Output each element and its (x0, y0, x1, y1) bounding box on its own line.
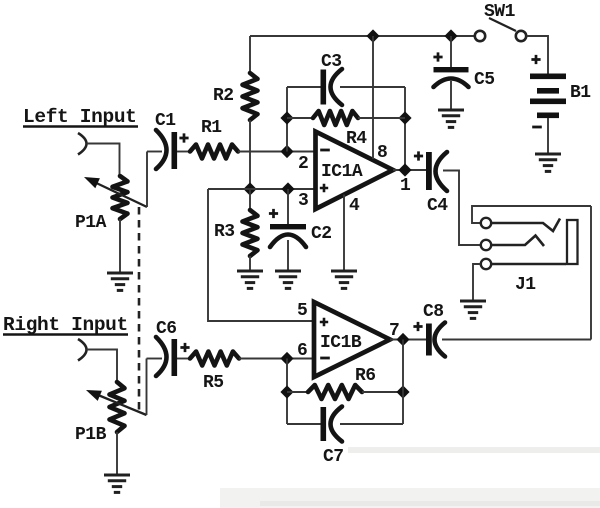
J1 plug body (567, 220, 578, 264)
ground under R3 (237, 270, 263, 273)
capacitor C6 plus (180, 343, 189, 352)
capacitor C5 plus (433, 52, 442, 61)
wire C3 frame right (340, 86, 405, 88)
capacitor C8 (426, 323, 445, 357)
svg-text:SW1: SW1 (484, 2, 516, 22)
right input jack (78, 339, 87, 361)
ground under P1A (107, 272, 133, 275)
ground under C2 (275, 270, 301, 273)
ground under pin4 (331, 270, 357, 273)
node R6 left (280, 385, 293, 398)
wire C5 to ground (450, 81, 452, 109)
switch SW1 (475, 18, 526, 41)
svg-text:C6: C6 (156, 319, 177, 339)
wire C1 to R1 (177, 151, 190, 153)
wire P1A wiper riser (146, 152, 148, 208)
svg-text:4: 4 (349, 196, 360, 216)
wire R4 right lead (358, 117, 405, 119)
wire pin7 down link (402, 340, 404, 425)
svg-text:P1B: P1B (75, 425, 107, 445)
svg-text:C1: C1 (155, 111, 176, 131)
battery B1 (530, 74, 566, 119)
svg-text:R5: R5 (203, 373, 224, 393)
wire C7 left lead (287, 423, 321, 425)
svg-text:IC1B: IC1B (320, 333, 362, 353)
wire C4 to J1 (443, 171, 481, 246)
capacitor C2 plus (269, 209, 278, 218)
wire J1 to C8 return (590, 206, 592, 340)
svg-text:J1: J1 (515, 275, 536, 295)
pin 4 wire (343, 195, 345, 272)
capacitor C8 plus (413, 322, 422, 331)
capacitor C1 plus (179, 133, 188, 142)
wire R2 to bias node (249, 120, 251, 189)
wire V+ rail (250, 35, 475, 37)
pin 8 wire (372, 36, 374, 159)
svg-text:Left Input: Left Input (23, 106, 137, 128)
node R4 left (280, 111, 293, 124)
node R4 right (398, 111, 411, 124)
wire bias to pin5 (208, 189, 314, 321)
svg-text:P1A: P1A (75, 213, 107, 233)
svg-text:C8: C8 (423, 302, 444, 322)
wire jack to P1B (87, 350, 118, 383)
wire riser to C1 (147, 151, 162, 153)
node pin2-feedback (280, 145, 293, 158)
J1 ring contact B (481, 236, 544, 251)
svg-text:C4: C4 (427, 196, 448, 216)
IC1B minus input mark (320, 357, 330, 360)
node V+ at C5 (444, 29, 457, 42)
op-amp IC1B (314, 302, 390, 377)
pin 1 wire (393, 169, 426, 171)
node bias-R2 (243, 182, 256, 195)
svg-text:R2: R2 (213, 86, 234, 106)
wire battery to ground (547, 118, 549, 153)
IC1B plus input mark (320, 318, 328, 326)
svg-text:B1: B1 (570, 83, 591, 103)
resistor R4 (313, 111, 358, 125)
scan artifact band 2 (220, 488, 600, 508)
svg-text:R1: R1 (201, 118, 222, 138)
ground under C5 (438, 109, 464, 112)
wire C7 right lead (340, 423, 403, 425)
wire P1A to ground (119, 219, 121, 272)
ground under P1B (104, 474, 130, 477)
wire rail corner to R2 (249, 36, 251, 73)
wire riser to C6 (147, 358, 163, 360)
wire R6 right lead (362, 391, 403, 393)
capacitor C2 (270, 189, 306, 271)
svg-text:Right Input: Right Input (3, 314, 128, 336)
svg-text:6: 6 (297, 341, 307, 361)
op-amp IC1A (316, 132, 394, 210)
wire C6 to R5 (177, 358, 190, 360)
capacitor C5 (434, 67, 469, 87)
wire R5 to pin6 (239, 358, 314, 360)
wire C8 to J1 return (442, 339, 591, 341)
svg-text:IC1A: IC1A (321, 162, 363, 182)
node V+ at pin8 column (366, 29, 379, 42)
capacitor C6 (156, 337, 177, 376)
node pin7 (396, 333, 409, 346)
wire jack to P1A (87, 144, 120, 177)
ground under J1 (460, 300, 486, 303)
wire C3 frame left (287, 86, 321, 88)
wire feedback left vertical (286, 87, 288, 152)
svg-text:2: 2 (298, 154, 308, 174)
wire pin6 down link (286, 359, 288, 425)
wire bias node rail (208, 188, 315, 190)
svg-text:C7: C7 (323, 447, 344, 467)
wire J1 top link (472, 206, 591, 223)
svg-text:C5: C5 (474, 70, 495, 90)
ground under B1 (535, 153, 561, 156)
svg-text:C2: C2 (311, 224, 332, 244)
potentiometer P1B (110, 382, 125, 432)
node R6 right (396, 385, 409, 398)
label B1 plus (531, 55, 540, 64)
potentiometer P1A (113, 176, 128, 219)
pin 7 wire (390, 339, 427, 341)
svg-text:5: 5 (297, 301, 307, 321)
svg-text:R3: R3 (214, 222, 235, 242)
IC1A plus input mark (320, 184, 328, 192)
svg-text:C3: C3 (321, 52, 342, 72)
node pin1 output (398, 163, 411, 176)
resistor R1 (190, 145, 238, 159)
capacitor C4 (426, 152, 447, 191)
svg-text:8: 8 (377, 143, 387, 163)
svg-text:3: 3 (298, 191, 308, 211)
svg-text:7: 7 (389, 321, 399, 341)
wire J1 sleeve to ground (473, 264, 481, 300)
IC1A minus input mark (320, 149, 330, 152)
capacitor C3 (321, 69, 343, 105)
left input jack (78, 133, 87, 155)
capacitor C7 (321, 407, 343, 442)
label B1 minus (532, 126, 542, 129)
J1 tip contact A (481, 218, 560, 231)
wire SW1 to battery (527, 36, 549, 75)
wire feedback right vertical (404, 87, 406, 170)
P1B wiper (86, 390, 147, 415)
capacitor C4 plus (414, 151, 423, 160)
gang dashed link (138, 207, 141, 411)
wire R4 left lead (287, 117, 313, 119)
resistor R5 (190, 352, 239, 366)
resistor R6 (308, 385, 362, 399)
wire R1 to pin2 (238, 151, 315, 153)
node bias-C2 (281, 182, 294, 195)
P1A wiper (84, 177, 147, 207)
wire C5 tap (450, 36, 452, 67)
J1 sleeve contact C (481, 259, 566, 269)
wire P1B to ground (116, 432, 118, 474)
wire R6 left lead (287, 391, 308, 393)
scan artifact band 1 (348, 447, 600, 453)
resistor R3 (243, 189, 258, 271)
svg-text:1: 1 (400, 176, 411, 196)
capacitor C1 (156, 130, 177, 169)
wire P1B wiper riser (146, 359, 148, 416)
svg-text:R6: R6 (355, 366, 376, 386)
resistor R2 (243, 73, 258, 120)
node pin6 (280, 352, 293, 365)
